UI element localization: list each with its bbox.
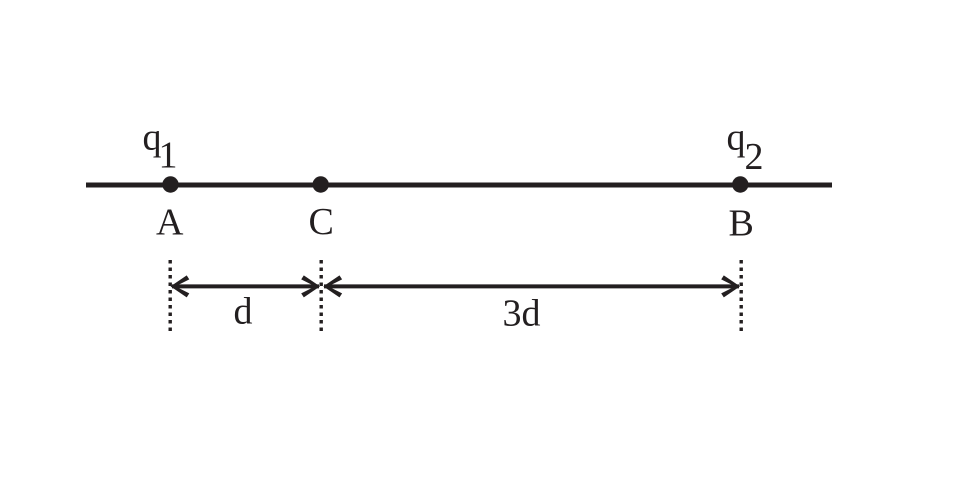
svg-text:A: A: [156, 201, 184, 243]
svg-text:3d: 3d: [503, 293, 541, 335]
dimension arrow shaft C to B: [324, 284, 739, 288]
svg-text:d: d: [234, 291, 253, 333]
node A (charge q1 dot): [162, 176, 178, 192]
svg-text:C: C: [309, 201, 334, 243]
dotted extension line at A: [168, 260, 171, 332]
label q2: [727, 116, 764, 178]
svg-text:2: 2: [745, 136, 764, 178]
arrowhead at C pointing right (end of d arrow): [301, 275, 320, 297]
wire: main horizontal line through A, C, B: [86, 183, 832, 188]
arrowhead at C pointing left (start of 3d arrow): [323, 275, 342, 297]
dotted extension line at B: [740, 260, 743, 332]
node C dot: [313, 176, 329, 192]
arrowhead at A pointing left: [171, 275, 190, 297]
svg-text:1: 1: [159, 135, 178, 177]
dotted extension line at C: [320, 260, 323, 332]
node B (charge q2 dot): [732, 176, 748, 192]
svg-text:B: B: [729, 202, 754, 244]
dimension arrow shaft A to C: [172, 284, 319, 288]
label q1: [143, 116, 178, 176]
arrowhead at B pointing right: [721, 275, 740, 297]
svg-text:q: q: [727, 116, 746, 158]
